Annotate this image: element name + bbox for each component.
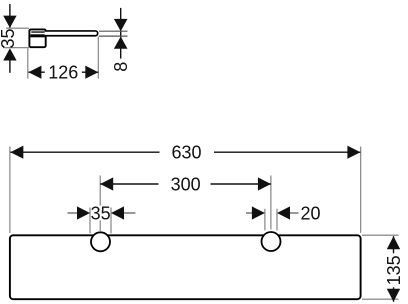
shelf front view rectangle xyxy=(10,235,361,299)
svg-text:630: 630 xyxy=(171,143,201,163)
dimension 35 hole: right tangent extension line xyxy=(110,208,112,234)
glass top line inside bracket xyxy=(31,31,45,33)
left mounting hole xyxy=(91,232,110,251)
dimension 20: right leader xyxy=(290,212,299,214)
dimension 630 left extension line xyxy=(9,147,11,233)
dimension 300 left extension line xyxy=(99,176,101,232)
svg-text:35: 35 xyxy=(0,28,18,48)
dimension 35 vertical line (top segment) xyxy=(9,4,11,28)
extension line shelf top xyxy=(99,30,128,32)
dimension 20: left line xyxy=(264,209,266,231)
right mounting hole xyxy=(262,232,281,251)
dimension 300 left arrow xyxy=(100,177,113,190)
dimension 135 down arrow xyxy=(387,289,400,302)
dimension 126 line xyxy=(28,71,98,73)
label 630 background xyxy=(160,144,215,161)
dimension 35 up arrow xyxy=(3,48,16,60)
dimension 35 hole: left arrow xyxy=(77,206,90,219)
dimension 126 left arrow xyxy=(28,66,41,79)
svg-text:300: 300 xyxy=(171,175,201,195)
dimension 35 hole: left tangent extension line xyxy=(89,208,91,234)
label 135 background xyxy=(386,253,401,287)
dimension 8 vertical line xyxy=(120,8,122,59)
dimension 300 right extension line xyxy=(270,176,272,230)
label 300 background xyxy=(159,176,211,193)
svg-text:20: 20 xyxy=(300,204,320,224)
dimension 20: left arrow xyxy=(252,206,265,219)
extension line top of bracket xyxy=(6,27,29,29)
support ledge inside bracket xyxy=(31,34,46,37)
dimension 300 right arrow xyxy=(258,177,271,190)
wall bracket (side view) xyxy=(29,29,45,47)
svg-text:35: 35 xyxy=(91,204,111,224)
dimension 20: right line xyxy=(276,209,278,231)
glass shelf (side view bar) xyxy=(45,31,98,36)
dimension 35 hole: right arrow xyxy=(111,206,124,219)
dimension 20: right arrow xyxy=(277,206,290,219)
dimension 135 up arrow xyxy=(387,236,400,249)
dimension 8 down arrow xyxy=(114,19,128,31)
svg-text:135: 135 xyxy=(384,255,404,285)
dimension 35 hole: left leader xyxy=(68,212,78,214)
dimension 630 right arrow xyxy=(347,146,360,159)
dimension 630 right extension line xyxy=(360,147,362,233)
dimension 126 right arrow xyxy=(85,66,98,79)
svg-text:126: 126 xyxy=(48,63,78,83)
dimension 35 hole: right leader xyxy=(124,212,136,214)
extension line shelf bottom xyxy=(99,35,128,37)
dimension 135 bottom extension line xyxy=(362,298,399,300)
dimension 35 vertical line (bottom segment) xyxy=(9,61,11,73)
dimension 135 top extension line xyxy=(362,234,399,236)
dimension 135 line xyxy=(393,236,395,302)
dimension 126 right extension line xyxy=(97,37,99,79)
dimension 630 line xyxy=(10,151,360,153)
dimension 126 left extension line xyxy=(27,49,29,79)
label 35 hole background xyxy=(91,206,109,221)
dimension 20: left leader xyxy=(246,212,252,214)
dimension 300 line xyxy=(100,183,271,185)
extension line bottom of bracket xyxy=(3,47,29,49)
dimension 8 up arrow xyxy=(114,37,128,49)
dimension 630 left arrow xyxy=(10,146,23,159)
label 126 background xyxy=(45,64,82,80)
svg-text:8: 8 xyxy=(111,62,131,72)
dimension 35 down arrow xyxy=(3,16,16,28)
